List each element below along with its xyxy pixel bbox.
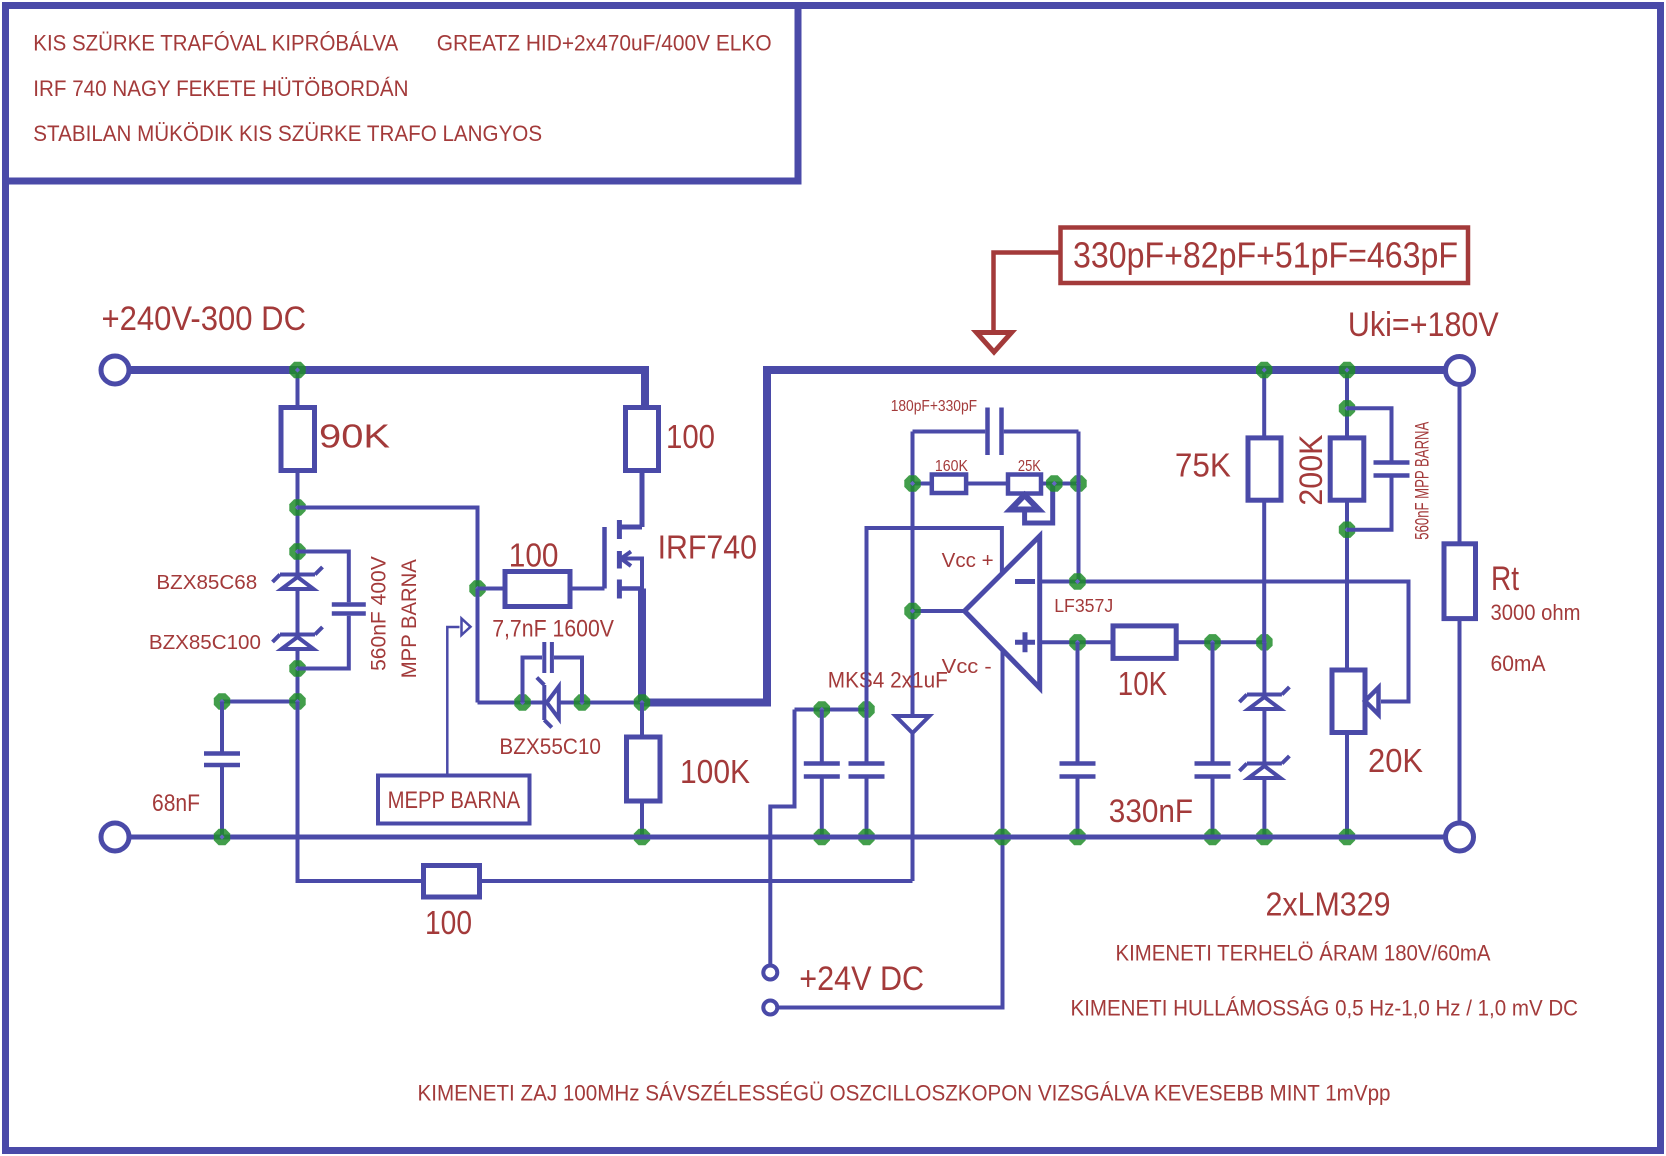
junction divider mid [1256, 634, 1272, 650]
resistor Rt [1444, 544, 1476, 619]
wire feedback up to opamp output [911, 432, 915, 882]
capacitor 330nF left wires [1076, 642, 1080, 837]
svg-text:MEPP BARNA: MEPP BARNA [388, 787, 521, 814]
resistor 90K [281, 408, 315, 471]
net +240V top rail left segment [115, 370, 645, 408]
resistor 100 drain [626, 408, 659, 471]
capacitor 7,7nF loop wires [523, 658, 583, 703]
transistor IRF740 source wire [619, 586, 642, 591]
svg-text:KIMENETI ZAJ 100MHz SÁVSZÉLESS: KIMENETI ZAJ 100MHz SÁVSZÉLESSÉGÜ OSZCIL… [418, 1081, 1391, 1106]
op-amp output wire [913, 609, 965, 613]
svg-text:7,7nF 1600V: 7,7nF 1600V [492, 616, 614, 643]
wire +24V up to Vcc rail [770, 710, 794, 966]
junction 68nF rail [214, 829, 230, 845]
junction rail 200K [1339, 362, 1355, 378]
svg-text:BZX55C10: BZX55C10 [499, 734, 601, 759]
transistor IRF740 drain wire [619, 471, 642, 528]
svg-text:20K: 20K [1368, 742, 1423, 779]
svg-text:IRF740: IRF740 [658, 529, 757, 566]
svg-text:90K: 90K [319, 418, 390, 455]
capacitor 180pF+330pF loop wires [913, 432, 1079, 582]
capacitor 560nF 400V branch wires [298, 552, 349, 669]
svg-text:BZX85C100: BZX85C100 [149, 631, 261, 654]
wire gate resistor left [478, 587, 506, 591]
svg-text:330pF+82pF+51pF=463pF: 330pF+82pF+51pF=463pF [1073, 235, 1458, 276]
wire zener chain LM329 [1262, 642, 1266, 837]
svg-text:KIMENETI TERHELÖ ÁRAM 180V/60m: KIMENETI TERHELÖ ÁRAM 180V/60mA [1116, 941, 1491, 966]
junction 25K right [1070, 475, 1086, 491]
wire 100K to rail [640, 801, 644, 837]
junction snubber left [514, 694, 530, 710]
trimmer 25K body [1008, 475, 1041, 494]
svg-text:68nF: 68nF [152, 790, 200, 817]
op-amp LF357J triangle [965, 536, 1040, 688]
junction zener top [289, 543, 305, 559]
resistor 100 gate [505, 572, 570, 607]
svg-text:180pF+330pF: 180pF+330pF [891, 398, 978, 415]
junction zener rail [1256, 829, 1272, 845]
capacitor 68nF plates [204, 754, 240, 766]
MEPP BARNA box [378, 776, 530, 824]
svg-text:10K: 10K [1118, 665, 1167, 702]
trimmer 25K arrow [1011, 495, 1039, 510]
capacitor 180pF+330pF plates [988, 408, 1002, 456]
wire zener stack [296, 552, 300, 702]
junction 330nF right rail [1204, 829, 1220, 845]
transistor IRF740 channel segments [617, 520, 622, 599]
junction 200K top [1339, 400, 1355, 416]
pointer arrowhead [462, 619, 471, 636]
junction 25K wiper [1046, 475, 1062, 491]
svg-text:IRF 740 NAGY FEKETE HÜTÖBORDÁN: IRF 740 NAGY FEKETE HÜTÖBORDÁN [33, 76, 408, 101]
wire left column down to feedback row [298, 702, 424, 882]
capacitor MKS4 right wires [865, 710, 869, 838]
junction snubber right [574, 694, 590, 710]
wire snubber row [478, 701, 643, 705]
junction MKS4 left rail [814, 829, 830, 845]
svg-text:25K: 25K [1018, 458, 1042, 475]
wire 75K branch [1262, 370, 1266, 642]
transistor IRF740 gate bar [602, 527, 607, 589]
wire rail to 200K [1345, 370, 1349, 438]
svg-text:LF357J: LF357J [1054, 595, 1113, 616]
svg-text:+240V-300 DC: +240V-300 DC [102, 300, 307, 338]
wire to gate node [298, 508, 478, 589]
svg-text:KIMENETI HULLÁMOSSÁG 0,5 Hz-1,: KIMENETI HULLÁMOSSÁG 0,5 Hz-1,0 Hz / 1,0… [1071, 996, 1579, 1021]
svg-text:60mA: 60mA [1491, 651, 1546, 676]
svg-text:MPP BARNA: MPP BARNA [397, 559, 421, 679]
svg-text:Uki=+180V: Uki=+180V [1348, 306, 1499, 344]
capacitor 330nF right wires [1211, 642, 1215, 837]
junction zener bottom [289, 660, 305, 676]
svg-text:100K: 100K [680, 753, 750, 790]
svg-text:560nF 400V: 560nF 400V [366, 556, 390, 671]
transistor IRF740 body arrow [621, 552, 643, 589]
callout arrowhead [977, 333, 1012, 353]
junction 200K bottom [1339, 522, 1355, 538]
junction output [904, 603, 920, 619]
terminal pad bottom-right [1446, 823, 1474, 851]
capacitor MKS4 right plates [849, 764, 885, 777]
svg-text:100: 100 [425, 904, 472, 941]
resistor 100K [627, 737, 661, 801]
capacitor 560nF 400V plates [332, 605, 366, 614]
info box top-left [6, 6, 799, 182]
svg-text:+24V DC: +24V DC [799, 960, 924, 998]
feedback wire with 100 ohm [480, 879, 913, 883]
wire gate node down [476, 589, 480, 703]
wire source to 100K [640, 703, 644, 738]
svg-text:330nF: 330nF [1109, 793, 1193, 829]
trimmer 20K body [1332, 670, 1365, 733]
zener BZX85C100 [273, 627, 323, 649]
trimmer 20K wiper arrow [1365, 688, 1379, 715]
svg-text:GREATZ HID+2x470uF/400V ELKO: GREATZ HID+2x470uF/400V ELKO [437, 30, 772, 55]
wire minus input net [1040, 582, 1409, 702]
svg-text:2xLM329: 2xLM329 [1266, 886, 1391, 923]
big junction source node [634, 694, 650, 710]
output down-arrow [896, 716, 930, 733]
svg-text:3000 ohm: 3000 ohm [1491, 600, 1581, 625]
terminal pad top-right [1446, 357, 1474, 385]
zener BZX85C68 [273, 567, 323, 589]
junction 20K rail [1339, 829, 1355, 845]
svg-text:STABILAN MÜKÖDIK KIS SZÜRKE TR: STABILAN MÜKÖDIK KIS SZÜRKE TRAFO LANGYO… [33, 121, 542, 146]
net Uki thick path: source to output rail [642, 370, 1447, 703]
junction MKS4 right rail [858, 829, 874, 845]
resistor 100 feedback [424, 866, 480, 898]
wire Vcc- stub [777, 650, 1002, 1008]
capacitor MKS4 left wires [820, 710, 824, 838]
wire Vcc+ rail [867, 528, 1002, 710]
capacitor 560nF right plates [1374, 463, 1410, 476]
pointer line MEPP [447, 627, 459, 775]
callout leader line [994, 253, 1061, 337]
wire 200K to 20K [1345, 500, 1349, 670]
terminal +24V bottom [763, 1001, 777, 1015]
junction 330nF left rail [1069, 829, 1085, 845]
wire 68nF node [222, 700, 298, 704]
svg-text:100: 100 [509, 537, 559, 574]
svg-text:560nF MPP BARNA: 560nF MPP BARNA [1413, 421, 1434, 539]
junction 160K left [904, 475, 920, 491]
wire rail to 90K [296, 370, 300, 408]
bottom rail net [115, 835, 1447, 840]
capacitor 68nF wires [220, 702, 224, 838]
op-amp plus symbol [1015, 632, 1035, 652]
junction plus input [1069, 634, 1085, 650]
junction Vcc- rail [994, 829, 1010, 845]
callout box 463pF [1061, 228, 1469, 284]
resistor 160K [932, 475, 966, 494]
zener LM329 upper [1239, 687, 1289, 709]
junction rail 75K [1256, 362, 1272, 378]
junction 100K rail [634, 829, 650, 845]
trimmer 25K wiper wire [1025, 484, 1053, 524]
svg-text:200K: 200K [1293, 435, 1329, 506]
wire 20K to rail [1345, 733, 1349, 838]
zener LM329 lower [1239, 756, 1289, 778]
op-amp minus symbol [1015, 579, 1035, 584]
svg-text:75K: 75K [1175, 447, 1231, 484]
wire plus input net [1040, 640, 1265, 644]
svg-text:BZX85C68: BZX85C68 [156, 571, 257, 594]
junction gate node [469, 580, 485, 596]
junction minus input [1069, 573, 1085, 589]
resistor 10K [1113, 626, 1176, 659]
svg-text:Rt: Rt [1491, 560, 1519, 598]
svg-text:160K: 160K [935, 458, 969, 475]
junction 68nF top [214, 693, 230, 709]
resistor 200K [1330, 438, 1364, 500]
svg-text:Vcc -: Vcc - [942, 655, 992, 678]
terminal pad bottom-left [101, 823, 129, 851]
svg-text:Vcc +: Vcc + [942, 549, 994, 572]
capacitor 7,7nF plates [544, 642, 552, 673]
junction left column [289, 693, 305, 709]
capacitor MKS4 left plates [804, 764, 840, 777]
svg-text:KIS SZÜRKE TRAFÓVAL KIPRÓBÁLVA: KIS SZÜRKE TRAFÓVAL KIPRÓBÁLVA [33, 30, 398, 55]
junction 90K bottom [289, 499, 305, 515]
junction rail/90K [289, 362, 305, 378]
wire Rt [1458, 383, 1462, 825]
junction MKS4 left [814, 701, 830, 717]
wire MKS4 top row [795, 708, 867, 712]
terminal +24V top [763, 966, 777, 980]
terminal pad top-left [101, 356, 129, 384]
zener BZX55C10 (horizontal) [537, 678, 559, 728]
wire 90K down [296, 471, 300, 552]
svg-text:MKS4 2x1uF: MKS4 2x1uF [828, 668, 948, 693]
wire gate resistor right [570, 587, 605, 591]
junction MKS4 right [858, 701, 874, 717]
svg-text:100: 100 [666, 418, 715, 455]
resistor 75K [1248, 438, 1281, 500]
wire 160K row [913, 482, 1079, 486]
capacitor 330nF left plates [1060, 764, 1096, 777]
junction 10K right [1204, 634, 1220, 650]
capacitor 560nF right branch wires [1347, 408, 1392, 529]
capacitor 330nF right plates [1195, 764, 1231, 777]
